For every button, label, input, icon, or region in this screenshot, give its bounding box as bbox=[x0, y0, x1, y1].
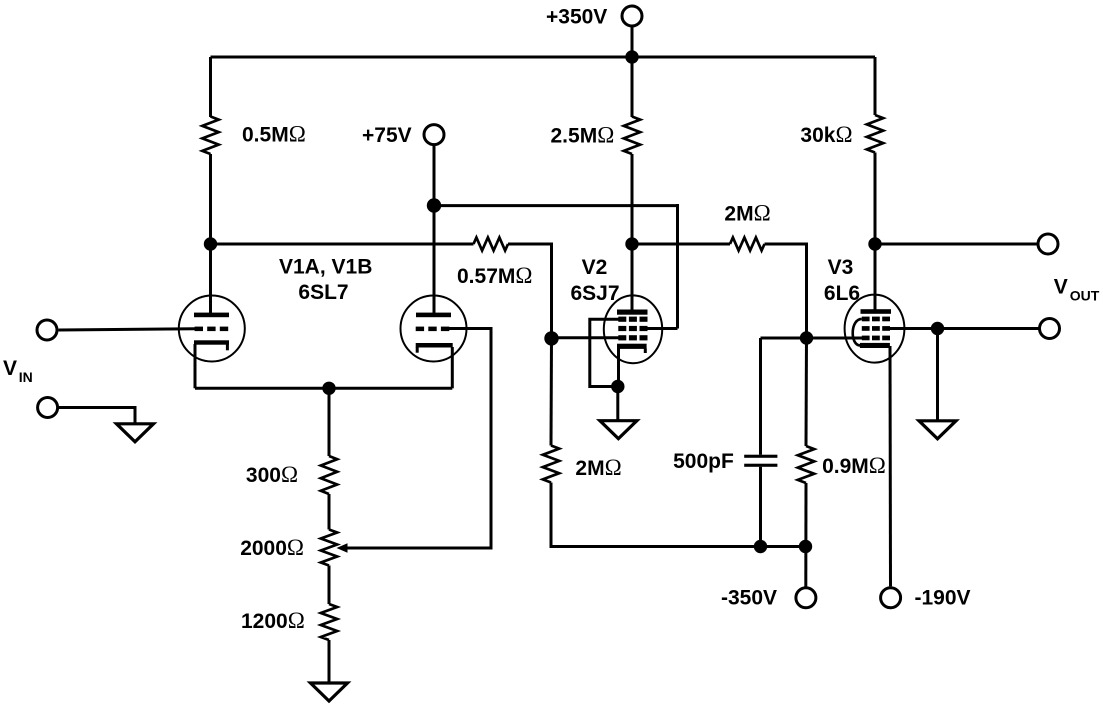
wire 300 to pot bbox=[328, 494, 331, 530]
svg-text:2.5MΩ: 2.5MΩ bbox=[551, 123, 615, 148]
wire V2 suppressor tie to cathode bbox=[590, 319, 619, 386]
terminal VIN lower bbox=[38, 398, 58, 418]
tube V2 6SJ7 pentode bbox=[604, 295, 662, 363]
node V2 grid junction bbox=[544, 331, 558, 345]
svg-text:1200Ω: 1200Ω bbox=[241, 608, 305, 633]
node 0.9M junction on -350V rail bbox=[799, 540, 812, 553]
resistor 2M lower bbox=[543, 446, 559, 483]
svg-text:V2: V2 bbox=[582, 256, 608, 279]
resistor 300 ohm bbox=[321, 456, 337, 494]
svg-text:-350V: -350V bbox=[721, 587, 777, 610]
svg-text:300Ω: 300Ω bbox=[246, 462, 298, 487]
wire cathode node down to 300 ohm bbox=[328, 388, 331, 456]
resistor 2M top bbox=[730, 238, 765, 251]
node VOUT lower junction bbox=[931, 322, 944, 335]
wire V1A cathode down bbox=[194, 344, 197, 388]
ground at VIN bbox=[117, 424, 154, 442]
svg-text:6SL7: 6SL7 bbox=[298, 281, 348, 304]
wire bus down to 30k resistor bbox=[874, 57, 877, 115]
wire VOUT lower to ground bbox=[936, 329, 939, 422]
potentiometer 2000 ohm bbox=[321, 530, 337, 566]
wire V2 grid node to V2 control grid bbox=[552, 336, 619, 339]
svg-text:+350V: +350V bbox=[546, 6, 607, 29]
wire into V2 screen grid bbox=[647, 327, 678, 330]
capacitor 500pF bbox=[744, 338, 777, 547]
resistor 30k bbox=[867, 115, 883, 153]
resistor 0.5M bbox=[202, 117, 218, 155]
svg-text:0.9MΩ: 0.9MΩ bbox=[822, 453, 886, 478]
node V2 cathode junction bbox=[611, 380, 624, 393]
svg-text:6L6: 6L6 bbox=[824, 282, 860, 305]
svg-text:OUT: OUT bbox=[1070, 288, 1100, 304]
terminal -190V bbox=[881, 588, 901, 608]
node V3 plate junction bbox=[868, 237, 881, 250]
svg-text:V1A, V1B: V1A, V1B bbox=[279, 256, 372, 279]
svg-text:500pF: 500pF bbox=[673, 450, 734, 473]
terminal +350V bbox=[622, 6, 642, 26]
svg-text:6SJ7: 6SJ7 bbox=[570, 282, 619, 305]
resistor 0.57M bbox=[474, 238, 509, 251]
wire VIN to V1A grid bbox=[59, 329, 196, 330]
wire 2.5M resistor to V2 plate bbox=[631, 154, 634, 312]
svg-text:+75V: +75V bbox=[362, 124, 412, 147]
resistor 0.9M bbox=[798, 446, 814, 483]
node V2 plate junction bbox=[625, 237, 638, 250]
wire 2M lower to -350V rail bbox=[551, 483, 806, 547]
wire V2 plate lead bbox=[631, 244, 634, 312]
node cap junction on -350V rail bbox=[754, 540, 767, 553]
svg-text:2MΩ: 2MΩ bbox=[575, 455, 621, 480]
svg-text:2MΩ: 2MΩ bbox=[724, 200, 770, 225]
tube V1B 6SL7 triode bbox=[401, 296, 467, 362]
terminal -350V bbox=[796, 588, 816, 608]
terminal VOUT upper bbox=[1038, 234, 1058, 254]
resistor 1200 ohm bbox=[321, 604, 337, 640]
node cathode bus junction bbox=[322, 382, 335, 395]
svg-text:IN: IN bbox=[19, 369, 33, 385]
svg-text:0.5MΩ: 0.5MΩ bbox=[242, 122, 306, 147]
svg-text:0.57MΩ: 0.57MΩ bbox=[457, 263, 532, 288]
terminal VIN upper bbox=[37, 320, 57, 340]
wire 30k resistor to V3 plate bbox=[874, 153, 877, 313]
svg-text:2000Ω: 2000Ω bbox=[240, 535, 304, 560]
ground at VOUT bbox=[919, 421, 956, 439]
wire V3 plate node to upper VOUT terminal bbox=[875, 243, 1038, 246]
wiper arrow of pot bbox=[337, 543, 348, 552]
wire V2 plate node to 2M bbox=[632, 243, 730, 246]
wire 1200 ohm to ground bbox=[328, 640, 331, 684]
wire V2 cathode down bbox=[617, 348, 620, 387]
node V3 grid junction bbox=[800, 331, 813, 344]
wire cathode bus bbox=[195, 387, 452, 390]
svg-text:V3: V3 bbox=[828, 256, 854, 279]
svg-text:V: V bbox=[1054, 276, 1068, 299]
ground at V2 cathode bbox=[600, 421, 637, 439]
wire down to V2 screen level bbox=[676, 204, 679, 329]
wire V3 grid node to 0.9M bbox=[805, 338, 809, 446]
wire top supply bus bbox=[211, 56, 876, 59]
wire +350V terminal to top bus bbox=[631, 26, 634, 57]
tube V1A 6SL7 triode bbox=[179, 296, 245, 362]
tube V3 6L6 bbox=[845, 295, 905, 363]
node V1A plate junction bbox=[204, 237, 217, 250]
wire V3 grid node to V3 control grid bbox=[761, 337, 863, 340]
wire +75V down to V1B plate bbox=[433, 145, 436, 314]
ground at cathode chain bbox=[311, 683, 348, 701]
wire V3 cathode to -190V bbox=[889, 346, 893, 586]
wire V3 plate lead bbox=[874, 244, 877, 311]
terminal VOUT lower bbox=[1040, 319, 1060, 339]
resistor 2.5M bbox=[624, 117, 640, 155]
svg-text:30kΩ: 30kΩ bbox=[800, 122, 852, 147]
wire 2M to V3 grid node bbox=[765, 244, 807, 338]
wire V1A plate node to 0.57M bbox=[211, 243, 474, 246]
wire pot to 1200 ohm bbox=[328, 566, 331, 605]
wire 0.9M to -350V terminal bbox=[804, 483, 807, 587]
wire +75V junction right bbox=[434, 204, 678, 207]
wire V2 cathode to ground bbox=[616, 387, 619, 422]
wire 2M lower from V2 grid node bbox=[550, 338, 554, 446]
svg-text:-190V: -190V bbox=[915, 587, 971, 610]
svg-text:V: V bbox=[3, 357, 17, 380]
node junction at +350V bus bbox=[625, 50, 638, 63]
wire bus down to 0.5M resistor bbox=[209, 57, 212, 117]
wire V3 screen to lower VOUT bbox=[890, 327, 1039, 330]
wire 0.5M resistor to V1A plate bbox=[209, 154, 212, 314]
wire V1B grid to feedback bbox=[347, 329, 491, 549]
terminal +75V bbox=[424, 125, 444, 145]
wire V1B cathode down bbox=[451, 347, 454, 388]
wire 0.57M to V2 grid node bbox=[508, 244, 552, 338]
node +75V to V2 screen junction bbox=[427, 198, 441, 212]
wire VIN lower to ground bbox=[59, 408, 135, 426]
wire bus down to 2.5M resistor bbox=[631, 57, 634, 117]
